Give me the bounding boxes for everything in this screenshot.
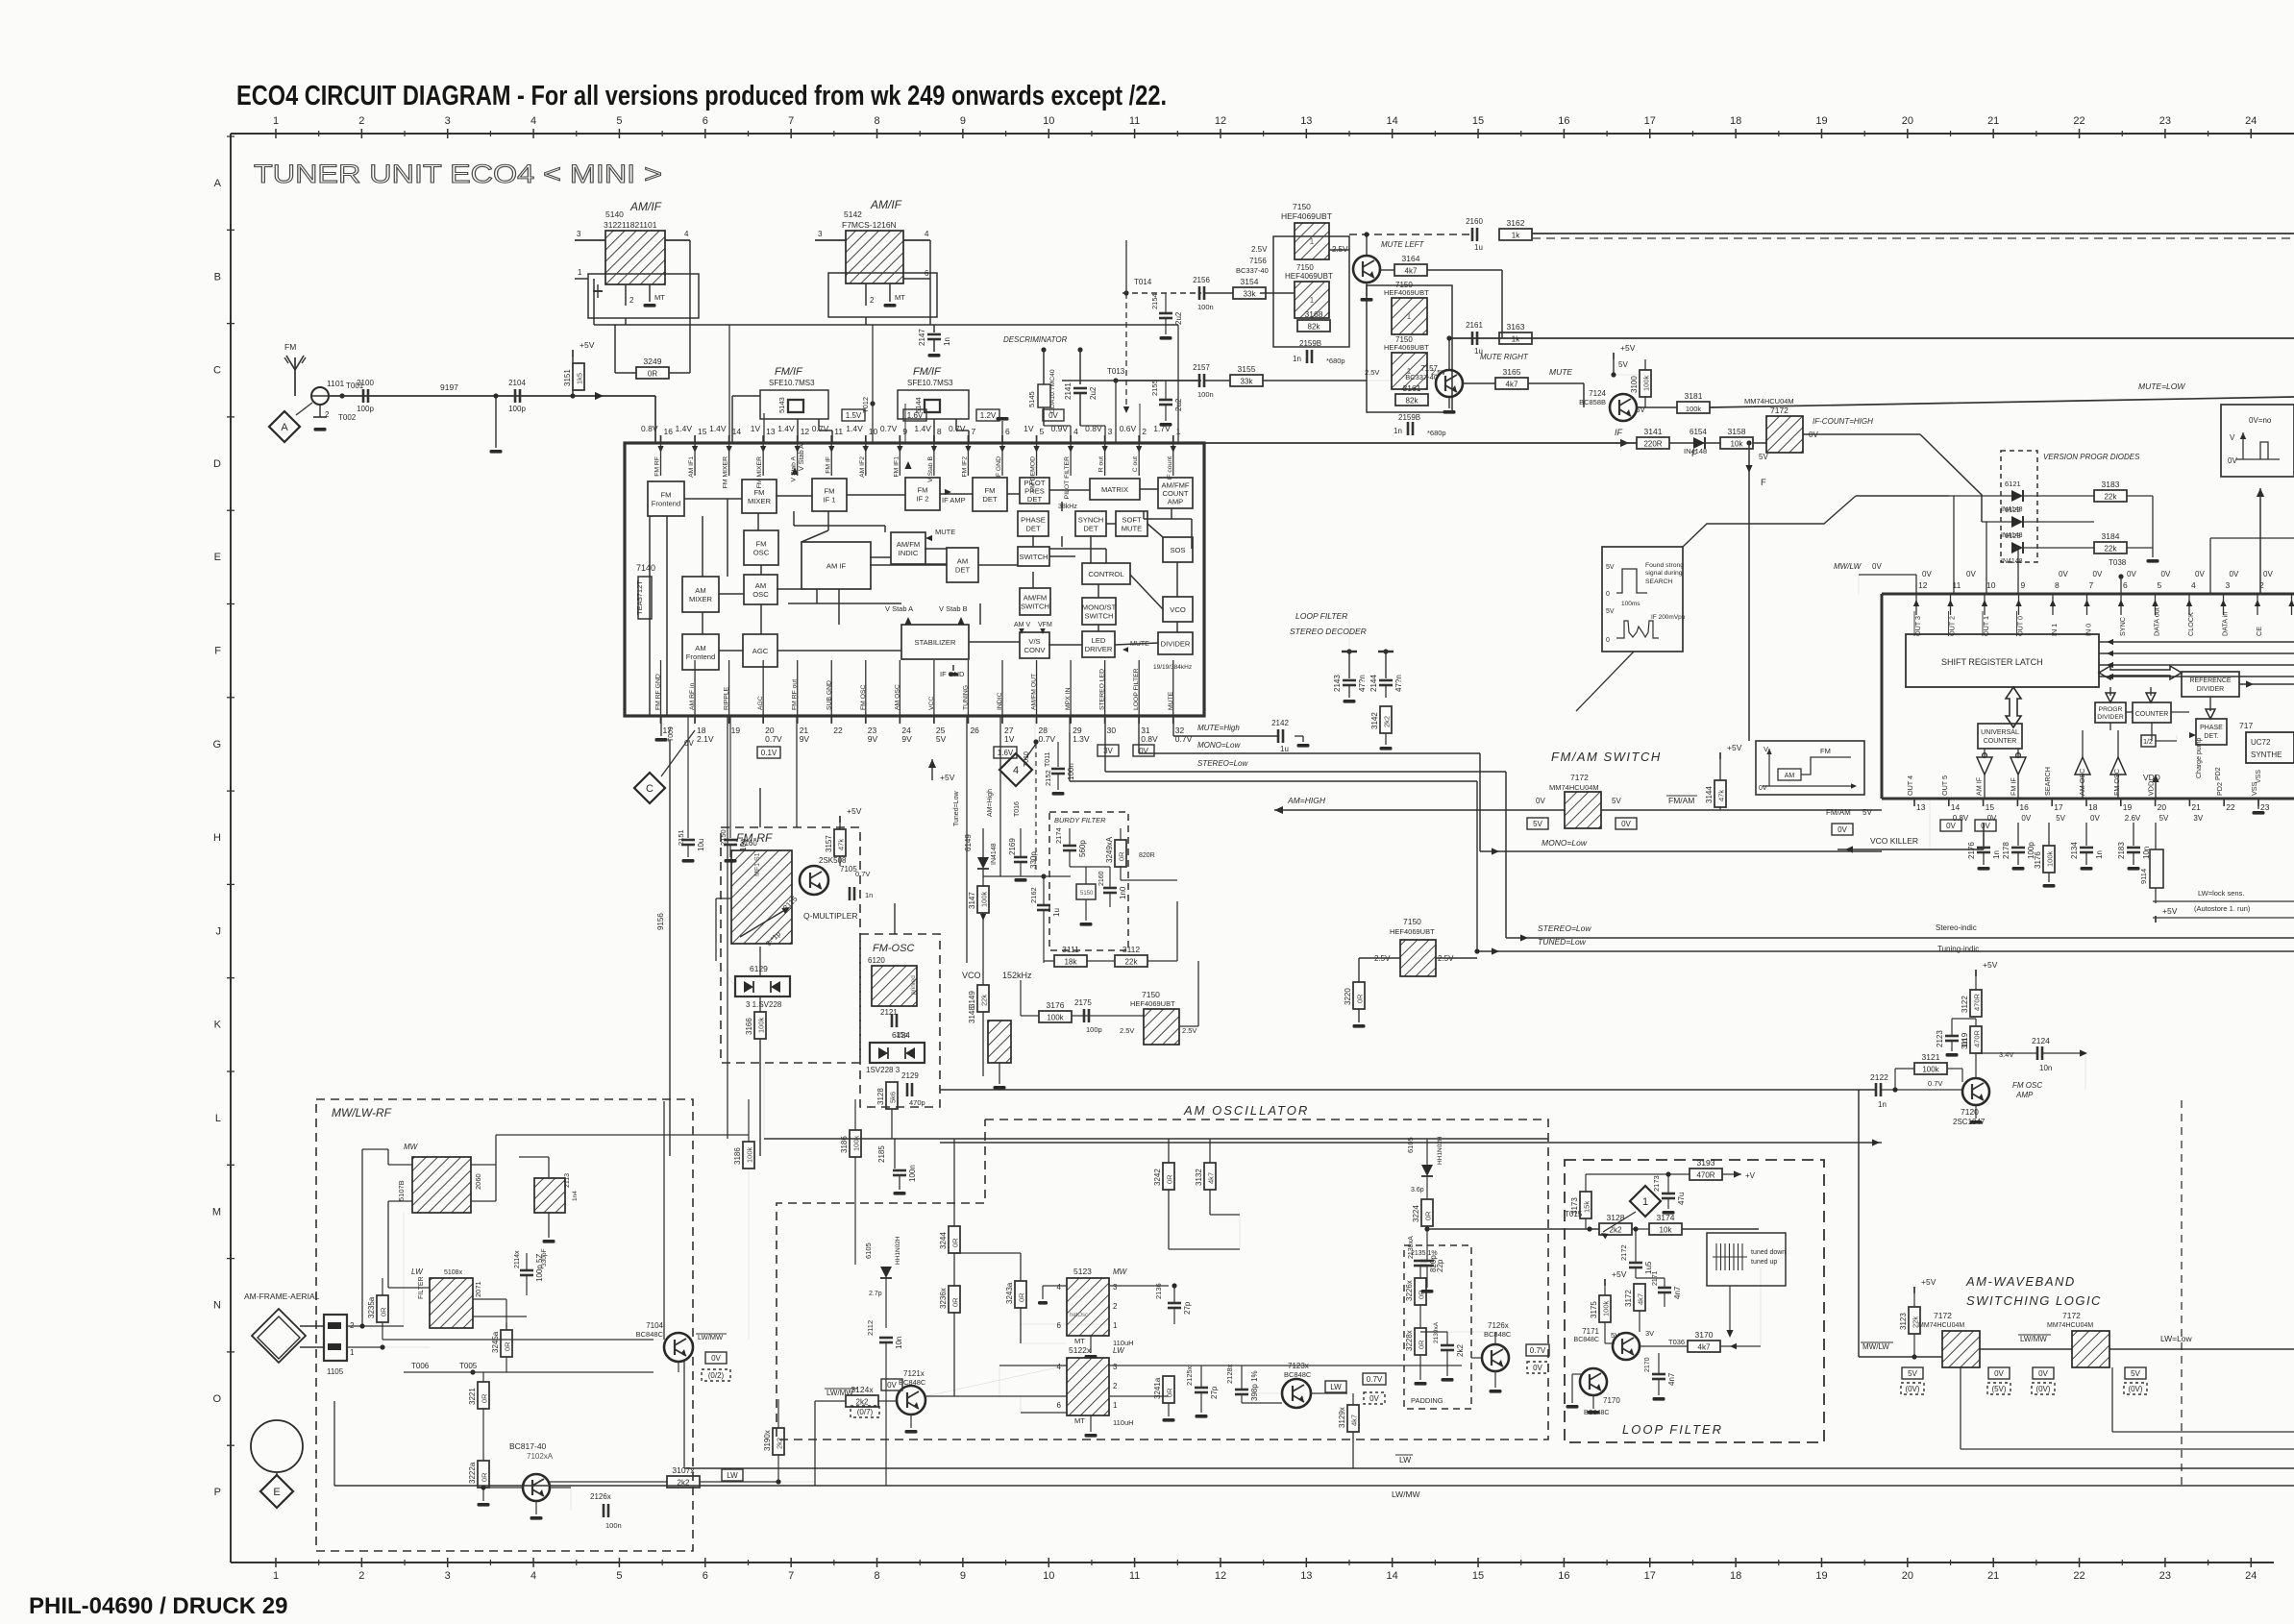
svg-text:H: H: [213, 832, 221, 844]
svg-text:MUTE: MUTE: [1122, 524, 1143, 532]
svg-text:(0V): (0V): [2128, 1385, 2142, 1393]
svg-text:14: 14: [1951, 802, 1961, 812]
svg-text:3176: 3176: [1047, 1000, 1065, 1010]
svg-text:7102xA: 7102xA: [527, 1452, 554, 1461]
svg-text:Frontend: Frontend: [652, 499, 680, 507]
svg-text:J: J: [216, 925, 222, 937]
svg-text:2: 2: [358, 115, 364, 127]
svg-text:DRIVER: DRIVER: [1085, 645, 1113, 653]
svg-text:2172: 2172: [1619, 1244, 1628, 1261]
svg-text:BC848C: BC848C: [636, 1330, 664, 1339]
svg-text:AM/IF: AM/IF: [870, 198, 902, 211]
svg-text:82k: 82k: [1406, 397, 1419, 406]
svg-text:2178: 2178: [2002, 842, 2010, 859]
svg-text:SWITCH: SWITCH: [1020, 553, 1048, 561]
svg-text:4n7: 4n7: [1673, 1286, 1682, 1299]
svg-text:13: 13: [1300, 1570, 1312, 1582]
svg-text:3170: 3170: [1695, 1330, 1714, 1340]
svg-text:3: 3: [1108, 427, 1113, 436]
svg-text:22k: 22k: [2105, 545, 2118, 554]
svg-text:4: 4: [530, 115, 536, 127]
svg-text:47u: 47u: [1677, 1193, 1686, 1205]
svg-text:2.1V: 2.1V: [697, 734, 714, 744]
svg-text:0V: 0V: [2021, 814, 2031, 823]
svg-text:0V=no: 0V=no: [2249, 416, 2272, 425]
svg-text:0V: 0V: [887, 1381, 897, 1390]
svg-text:2144: 2144: [1369, 675, 1378, 692]
svg-text:6: 6: [703, 115, 708, 127]
svg-text:2: 2: [358, 1570, 364, 1582]
svg-text:BC337-40: BC337-40: [1236, 266, 1269, 275]
svg-text:1.4V: 1.4V: [676, 424, 693, 433]
svg-text:tuned down: tuned down: [1751, 1249, 1786, 1256]
svg-text:1u: 1u: [1474, 243, 1483, 252]
svg-text:17: 17: [2054, 802, 2063, 812]
svg-text:2071: 2071: [474, 1281, 482, 1297]
svg-text:V Stab B: V Stab B: [939, 604, 968, 613]
svg-text:T005: T005: [459, 1362, 478, 1370]
svg-text:CE: CE: [2255, 627, 2263, 636]
svg-text:FM OSC: FM OSC: [2012, 1081, 2042, 1090]
svg-text:3141: 3141: [1644, 427, 1663, 436]
svg-text:7126x: 7126x: [1488, 1321, 1509, 1330]
svg-text:8: 8: [874, 1570, 879, 1582]
svg-text:3161: 3161: [1403, 383, 1421, 393]
svg-text:4k7: 4k7: [1207, 1172, 1216, 1184]
svg-text:152kHz: 152kHz: [1002, 971, 1032, 980]
svg-text:19: 19: [1815, 115, 1827, 127]
svg-text:22k: 22k: [980, 995, 989, 1006]
svg-text:30: 30: [1107, 726, 1117, 735]
svg-text:1.4V: 1.4V: [914, 424, 931, 433]
svg-text:7124: 7124: [1589, 389, 1606, 398]
svg-text:1: 1: [415, 1152, 416, 1153]
svg-text:VCO: VCO: [1170, 605, 1186, 614]
svg-text:3236x: 3236x: [939, 1288, 948, 1309]
svg-text:7157: 7157: [1420, 364, 1438, 373]
svg-text:COUNTER: COUNTER: [1984, 738, 2017, 745]
svg-text:3.6p: 3.6p: [1411, 1187, 1424, 1193]
svg-text:23: 23: [2260, 802, 2270, 812]
svg-text:T002: T002: [338, 413, 357, 422]
svg-text:FM OSC: FM OSC: [2112, 769, 2121, 796]
svg-text:BURDY FILTER: BURDY FILTER: [1054, 816, 1106, 824]
svg-text:5V: 5V: [936, 734, 947, 744]
svg-text:22: 22: [2073, 115, 2084, 127]
svg-text:19: 19: [2123, 802, 2133, 812]
svg-text:19: 19: [731, 726, 741, 735]
svg-text:2100: 2100: [357, 379, 374, 387]
svg-text:CLOCK: CLOCK: [2186, 612, 2195, 636]
svg-text:DATA out: DATA out: [2153, 607, 2161, 636]
svg-text:0V: 0V: [1536, 797, 1545, 805]
svg-text:16: 16: [2019, 802, 2029, 812]
svg-text:5V: 5V: [2056, 814, 2065, 823]
svg-text:2129: 2129: [901, 1071, 919, 1080]
svg-text:22: 22: [2226, 802, 2235, 812]
svg-text:3181: 3181: [1685, 391, 1703, 401]
svg-text:16: 16: [1558, 1570, 1569, 1582]
svg-text:2: 2: [1113, 1302, 1118, 1311]
svg-text:22k: 22k: [2105, 493, 2118, 502]
svg-text:AM OSC: AM OSC: [2078, 769, 2086, 796]
svg-text:MM74HCU04M: MM74HCU04M: [2047, 1322, 2093, 1329]
svg-text:ECO4 CIRCUIT DIAGRAM - For all: ECO4 CIRCUIT DIAGRAM - For all versions …: [236, 81, 1167, 111]
svg-text:2176: 2176: [1967, 842, 1976, 859]
svg-text:DATA in: DATA in: [2221, 612, 2230, 636]
svg-text:2.5V: 2.5V: [1251, 245, 1268, 254]
svg-text:5145: 5145: [1027, 391, 1036, 407]
svg-text:1: 1: [578, 268, 582, 277]
svg-text:5V: 5V: [1606, 564, 1615, 571]
svg-text:BC817-40: BC817-40: [509, 1441, 547, 1451]
svg-text:1V: 1V: [1004, 734, 1015, 744]
svg-text:N: N: [213, 1300, 221, 1312]
svg-text:3148: 3148: [968, 1006, 976, 1023]
svg-text:E: E: [214, 552, 221, 563]
svg-text:9V: 9V: [800, 734, 810, 744]
svg-text:C: C: [213, 365, 221, 377]
svg-text:T006: T006: [411, 1362, 430, 1370]
svg-text:CONTROL: CONTROL: [1088, 570, 1123, 578]
svg-text:1k: 1k: [1512, 232, 1520, 240]
svg-text:2125x: 2125x: [1185, 1366, 1194, 1386]
svg-text:Stereo-indic: Stereo-indic: [1936, 923, 1977, 932]
svg-text:UC72: UC72: [2251, 738, 2271, 747]
svg-text:7123x: 7123x: [1288, 1362, 1309, 1370]
svg-text:4: 4: [530, 1570, 536, 1582]
svg-text:VFM: VFM: [1038, 622, 1052, 628]
svg-text:3190x: 3190x: [763, 1430, 772, 1451]
svg-text:+5V: +5V: [940, 773, 955, 782]
svg-text:2156: 2156: [1193, 276, 1210, 284]
svg-text:DET: DET: [1025, 524, 1041, 532]
svg-text:3183: 3183: [2102, 480, 2120, 489]
svg-text:22p: 22p: [1436, 1259, 1444, 1272]
svg-text:+5V: +5V: [1983, 960, 1998, 970]
svg-text:2114x: 2114x: [514, 1250, 521, 1268]
svg-text:1: 1: [1113, 1401, 1118, 1410]
svg-text:REFERENCE: REFERENCE: [2189, 677, 2232, 684]
svg-text:HEF4069UBT: HEF4069UBT: [1281, 211, 1332, 221]
svg-text:0V: 0V: [2161, 570, 2171, 578]
svg-text:2u2: 2u2: [1174, 311, 1183, 325]
svg-text:0R: 0R: [481, 1472, 489, 1482]
svg-text:DIVIDER: DIVIDER: [1161, 640, 1191, 649]
svg-text:4: 4: [1057, 1363, 1062, 1371]
svg-text:8: 8: [2055, 580, 2060, 590]
svg-text:2112: 2112: [866, 1320, 875, 1336]
svg-text:0.7V: 0.7V: [765, 734, 782, 744]
svg-text:22k: 22k: [1125, 958, 1139, 967]
svg-text:2151: 2151: [677, 829, 685, 846]
svg-text:6123: 6123: [2005, 531, 2021, 540]
svg-text:0: 0: [1606, 637, 1610, 644]
svg-text:15: 15: [1472, 1570, 1484, 1582]
svg-text:2122: 2122: [1870, 1072, 1888, 1082]
svg-text:AM: AM: [1785, 773, 1795, 779]
svg-text:3172: 3172: [1624, 1290, 1633, 1307]
svg-text:5107B: 5107B: [397, 1180, 406, 1201]
svg-text:0V: 0V: [1966, 570, 1976, 578]
svg-text:AM V: AM V: [1014, 622, 1030, 628]
svg-text:1n: 1n: [865, 891, 873, 899]
svg-text:0.1V: 0.1V: [761, 749, 777, 757]
svg-text:MW/LW: MW/LW: [1862, 1342, 1889, 1351]
svg-text:9197: 9197: [440, 382, 458, 392]
svg-text:3164: 3164: [1402, 254, 1420, 263]
svg-text:MM74HCU04M: MM74HCU04M: [1744, 397, 1794, 406]
svg-text:IF: IF: [1615, 428, 1623, 437]
svg-text:6: 6: [2123, 580, 2128, 590]
svg-text:0.7V: 0.7V: [880, 424, 898, 433]
svg-text:1SV228 3: 1SV228 3: [866, 1066, 900, 1074]
svg-text:3: 3: [445, 115, 451, 127]
svg-text:9156: 9156: [656, 913, 665, 930]
svg-text:14: 14: [1387, 1570, 1398, 1582]
svg-text:0V: 0V: [684, 739, 694, 748]
svg-text:FM DEMOD: FM DEMOD: [1030, 456, 1037, 492]
svg-text:3224: 3224: [1412, 1205, 1420, 1222]
svg-text:FM: FM: [1820, 747, 1831, 755]
svg-text:7172: 7172: [1934, 1311, 1952, 1320]
svg-text:0R: 0R: [380, 1307, 388, 1316]
svg-text:0R: 0R: [1424, 1211, 1433, 1220]
svg-text:7170: 7170: [1603, 1396, 1620, 1405]
svg-text:3166: 3166: [745, 1018, 753, 1035]
svg-text:110uH: 110uH: [1113, 1418, 1134, 1427]
svg-text:1.6V: 1.6V: [998, 749, 1014, 757]
svg-text:2134: 2134: [2070, 842, 2079, 859]
svg-text:1n: 1n: [1961, 1039, 1969, 1047]
svg-text:0R: 0R: [1166, 1174, 1174, 1184]
svg-text:AM-FRAME-AERIAL: AM-FRAME-AERIAL: [244, 1292, 320, 1301]
svg-text:560p: 560p: [1078, 840, 1087, 857]
svg-text:+5V: +5V: [580, 340, 595, 350]
svg-text:Frontend: Frontend: [686, 652, 715, 661]
svg-text:LW: LW: [1113, 1346, 1125, 1355]
svg-text:LW=lock sens.: LW=lock sens.: [2198, 889, 2244, 898]
svg-text:5140: 5140: [605, 209, 624, 219]
svg-text:AM/IF: AM/IF: [629, 200, 662, 213]
svg-text:23: 23: [2159, 115, 2171, 127]
svg-text:12: 12: [1215, 1570, 1226, 1582]
svg-text:SOS: SOS: [1170, 546, 1185, 554]
svg-text:20: 20: [1902, 1570, 1913, 1582]
svg-text:100k: 100k: [1642, 375, 1651, 391]
svg-text:5V: 5V: [2159, 814, 2169, 823]
svg-text:100n: 100n: [1067, 763, 1075, 780]
svg-text:HEF4069UBT: HEF4069UBT: [1130, 999, 1175, 1008]
svg-text:0R: 0R: [504, 1341, 512, 1351]
svg-text:MW/LW: MW/LW: [1834, 562, 1862, 571]
svg-text:2: 2: [1113, 1382, 1118, 1390]
svg-text:0V: 0V: [1621, 820, 1631, 828]
svg-text:MM74HCU04M: MM74HCU04M: [1549, 783, 1599, 792]
svg-text:C: C: [646, 783, 654, 795]
svg-text:1n0: 1n0: [1119, 886, 1127, 899]
svg-text:5: 5: [2158, 580, 2162, 590]
svg-text:4: 4: [1013, 765, 1019, 776]
svg-text:20: 20: [2158, 802, 2167, 812]
svg-text:STEREO=Low: STEREO=Low: [1197, 759, 1248, 768]
svg-text:DESCRIMINATOR: DESCRIMINATOR: [1003, 335, 1068, 344]
svg-text:7104: 7104: [646, 1321, 663, 1330]
svg-text:T036: T036: [1668, 1338, 1685, 1346]
svg-text:7150: 7150: [1403, 917, 1421, 926]
svg-text:1n: 1n: [943, 337, 951, 346]
svg-text:7150: 7150: [1293, 202, 1311, 211]
svg-text:0V: 0V: [2090, 814, 2100, 823]
svg-text:10n: 10n: [2039, 1064, 2052, 1072]
svg-text:VCO: VCO: [962, 971, 981, 980]
svg-text:F: F: [1691, 449, 1697, 458]
svg-text:MIXER: MIXER: [689, 595, 713, 603]
svg-text:22: 22: [833, 726, 843, 735]
svg-text:+5V: +5V: [1727, 743, 1742, 752]
svg-text:0R: 0R: [1118, 851, 1126, 861]
svg-text:FM IF: FM IF: [2009, 777, 2017, 796]
svg-text:19: 19: [1815, 1570, 1827, 1582]
svg-text:9V: 9V: [868, 734, 878, 744]
svg-text:V Stab B: V Stab B: [927, 456, 934, 482]
svg-text:3235a: 3235a: [367, 1296, 376, 1318]
svg-text:2141: 2141: [1064, 382, 1073, 400]
svg-text:AM IF1: AM IF1: [688, 456, 695, 478]
svg-text:SWITCH: SWITCH: [1085, 611, 1114, 620]
svg-text:DET: DET: [955, 565, 971, 574]
svg-text:12: 12: [1918, 580, 1928, 590]
svg-text:AM=High: AM=High: [987, 789, 994, 817]
svg-text:7: 7: [2089, 580, 2094, 590]
svg-text:0V: 0V: [1872, 562, 1882, 571]
svg-text:0R: 0R: [1018, 1292, 1026, 1302]
svg-text:0V: 0V: [711, 1354, 721, 1363]
svg-text:2.6V: 2.6V: [2125, 814, 2141, 823]
svg-text:3222a: 3222a: [468, 1462, 477, 1484]
svg-text:13: 13: [766, 427, 776, 436]
svg-text:6: 6: [1057, 1401, 1062, 1410]
svg-text:5108x: 5108x: [444, 1269, 463, 1276]
svg-text:AM IF2: AM IF2: [859, 456, 866, 478]
svg-text:2143: 2143: [1333, 675, 1342, 692]
svg-text:T009: T009: [668, 726, 675, 742]
svg-text:VSS: VSS: [2256, 770, 2262, 783]
svg-text:0R: 0R: [1166, 1388, 1174, 1397]
svg-text:2128x: 2128x: [1225, 1364, 1234, 1384]
svg-text:6129: 6129: [750, 964, 768, 973]
svg-text:10u: 10u: [739, 839, 748, 851]
svg-text:0V: 0V: [1994, 1369, 2004, 1378]
svg-text:0V: 0V: [2263, 570, 2273, 578]
svg-text:2147: 2147: [918, 329, 926, 346]
svg-text:0.7V: 0.7V: [1039, 734, 1056, 744]
svg-text:SEARCH: SEARCH: [1645, 578, 1672, 585]
svg-text:0.7V: 0.7V: [1928, 1079, 1942, 1088]
svg-text:PADDING: PADDING: [1411, 1396, 1443, 1405]
svg-text:Found strong: Found strong: [1645, 562, 1684, 569]
svg-text:10: 10: [1043, 115, 1054, 127]
svg-text:+5V: +5V: [2162, 906, 2178, 916]
svg-text:0V: 0V: [2093, 570, 2103, 578]
svg-text:82k: 82k: [1308, 323, 1321, 332]
svg-text:G: G: [212, 739, 221, 750]
svg-text:3162: 3162: [1507, 218, 1525, 228]
svg-text:IF-COUNT=HIGH: IF-COUNT=HIGH: [1813, 417, 1873, 426]
svg-text:(5V): (5V): [1991, 1385, 2006, 1393]
svg-text:2139xA: 2139xA: [1433, 1321, 1440, 1343]
svg-text:printed: printed: [910, 975, 917, 995]
svg-text:Tuned=Low: Tuned=Low: [953, 791, 960, 826]
svg-text:T016: T016: [1014, 801, 1021, 817]
svg-text:1u: 1u: [1052, 908, 1061, 917]
svg-text:IN4148: IN4148: [991, 843, 998, 865]
svg-text:MM74HCU04M: MM74HCU04M: [1918, 1322, 1964, 1329]
svg-text:IN4148: IN4148: [2001, 558, 2023, 565]
svg-text:7172: 7172: [1770, 406, 1788, 415]
svg-text:6: 6: [1057, 1321, 1062, 1330]
svg-text:8: 8: [937, 427, 942, 436]
svg-text:4k7: 4k7: [1506, 381, 1518, 389]
svg-text:F: F: [214, 646, 221, 657]
svg-text:11: 11: [1953, 580, 1961, 590]
svg-text:0V: 0V: [2228, 456, 2237, 465]
svg-text:18: 18: [2088, 802, 2098, 812]
svg-text:9114: 9114: [2139, 869, 2148, 884]
svg-text:10k: 10k: [1660, 1226, 1673, 1235]
svg-text:DIVIDER: DIVIDER: [2197, 686, 2224, 693]
svg-text:13: 13: [1916, 802, 1926, 812]
svg-text:IF AMP: IF AMP: [942, 496, 966, 504]
svg-text:14: 14: [1387, 115, 1398, 127]
svg-text:100k: 100k: [1922, 1066, 1939, 1074]
svg-text:FM/AM SWITCH: FM/AM SWITCH: [1551, 750, 1662, 764]
svg-text:3111: 3111: [1062, 945, 1079, 954]
svg-text:0R: 0R: [951, 1238, 960, 1247]
svg-text:27p: 27p: [1210, 1386, 1219, 1399]
svg-text:+V: +V: [1745, 1171, 1756, 1180]
svg-text:FM IF: FM IF: [825, 456, 831, 474]
svg-text:MUTE=High: MUTE=High: [1197, 724, 1240, 732]
svg-text:7: 7: [788, 1570, 794, 1582]
svg-text:47?n: 47?n: [1358, 675, 1367, 692]
svg-text:6105: 6105: [1406, 1137, 1415, 1153]
svg-text:DET: DET: [982, 495, 998, 504]
svg-text:0V: 0V: [1759, 785, 1767, 792]
svg-text:2.7p: 2.7p: [869, 1291, 882, 1297]
svg-text:TUNER UNIT ECO4 < MINI >: TUNER UNIT ECO4 < MINI >: [254, 160, 662, 188]
svg-text:IN 0: IN 0: [2084, 624, 2093, 636]
svg-text:AM IF: AM IF: [826, 562, 847, 571]
svg-text:7172: 7172: [2062, 1311, 2081, 1320]
svg-text:820R: 820R: [1139, 852, 1155, 859]
svg-text:18: 18: [1730, 115, 1741, 127]
svg-text:22: 22: [2073, 1570, 2084, 1582]
svg-text:SYNC: SYNC: [2118, 617, 2127, 636]
svg-text:+5V: +5V: [1612, 1269, 1627, 1279]
svg-text:8: 8: [874, 115, 879, 127]
svg-text:5142: 5142: [844, 209, 862, 219]
svg-text:FM IF1: FM IF1: [893, 456, 900, 478]
svg-text:470p: 470p: [909, 1098, 925, 1107]
svg-text:21: 21: [1987, 1570, 1999, 1582]
svg-text:1: 1: [273, 115, 279, 127]
svg-text:3112: 3112: [1122, 945, 1141, 954]
svg-text:4: 4: [2191, 580, 2196, 590]
svg-text:1n4: 1n4: [572, 1191, 579, 1201]
svg-text:3228x: 3228x: [1405, 1330, 1414, 1351]
svg-text:470R: 470R: [1973, 993, 1982, 1011]
